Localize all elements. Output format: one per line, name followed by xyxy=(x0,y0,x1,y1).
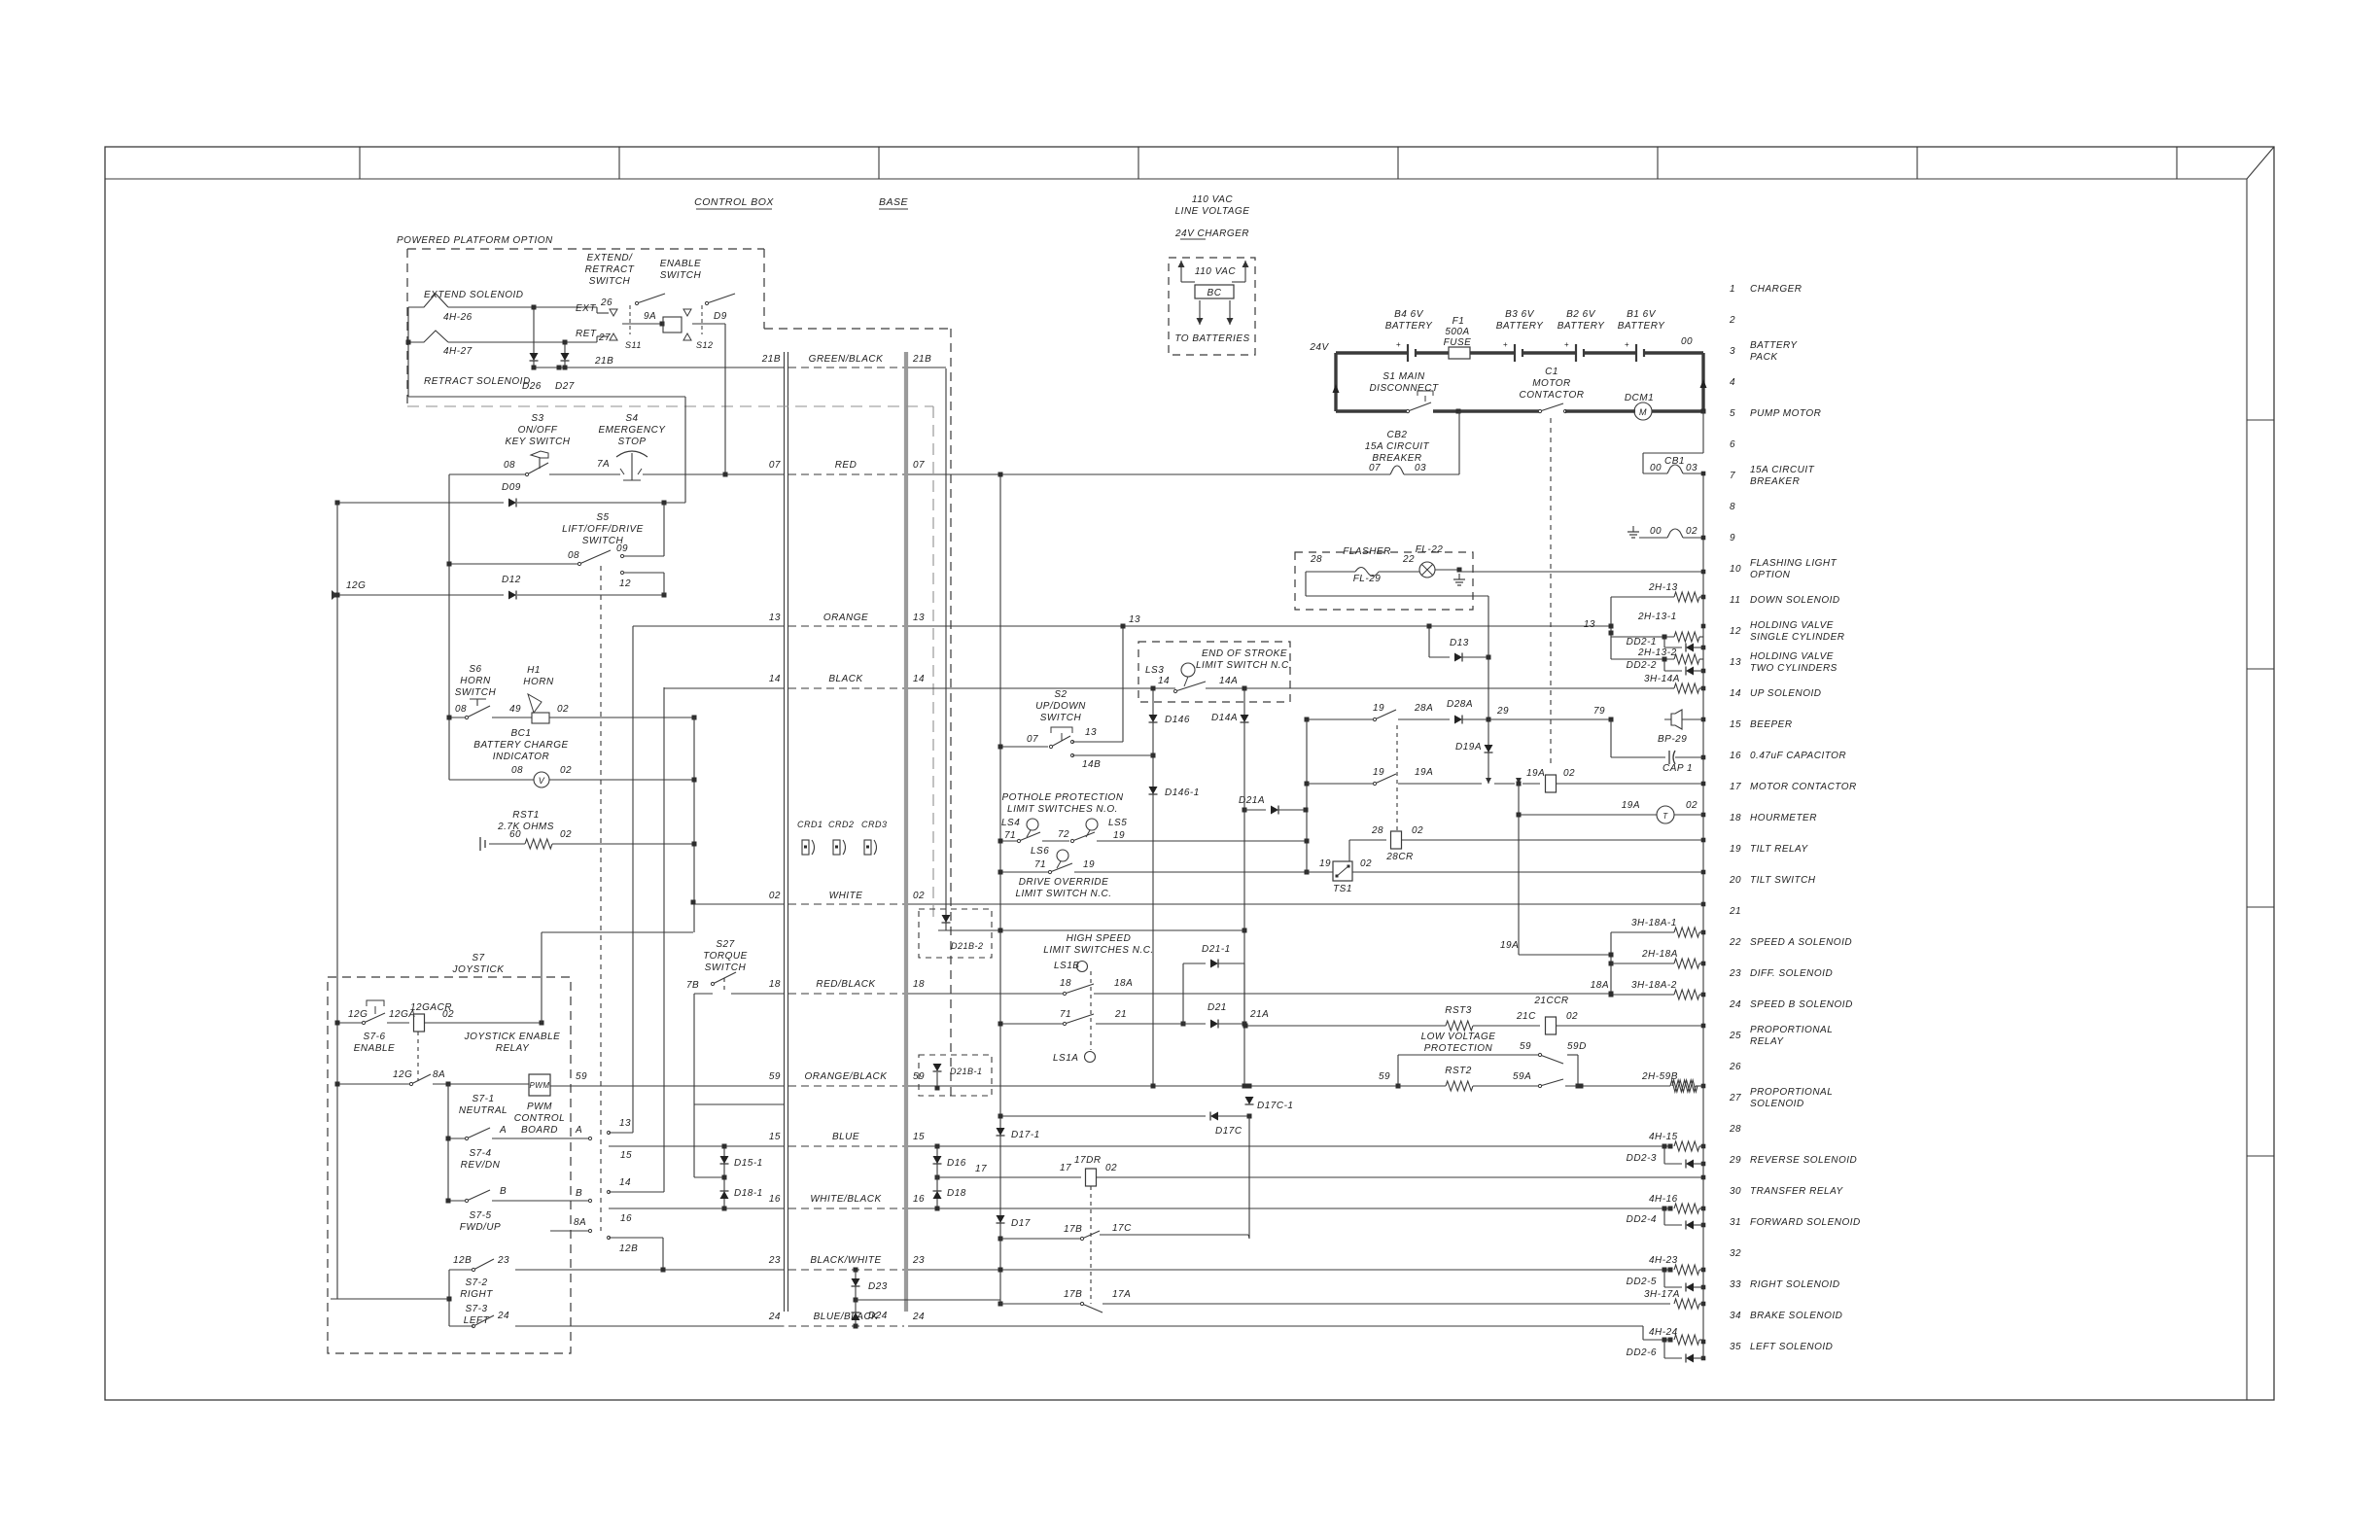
svg-text:17B: 17B xyxy=(1064,1289,1082,1300)
svg-text:19: 19 xyxy=(1730,844,1741,855)
svg-text:21CCR: 21CCR xyxy=(1533,996,1568,1006)
svg-text:12B: 12B xyxy=(619,1243,638,1254)
svg-text:OPTION: OPTION xyxy=(1750,570,1791,580)
svg-text:FLASHING LIGHT: FLASHING LIGHT xyxy=(1750,558,1837,569)
svg-text:M: M xyxy=(1639,407,1647,417)
svg-text:16: 16 xyxy=(1730,751,1741,761)
svg-text:S7-1: S7-1 xyxy=(472,1094,494,1104)
svg-text:LINE VOLTAGE: LINE VOLTAGE xyxy=(1175,206,1250,217)
svg-text:INDICATOR: INDICATOR xyxy=(493,752,550,762)
svg-text:D21-1: D21-1 xyxy=(1202,944,1231,955)
svg-text:DISCONNECT: DISCONNECT xyxy=(1369,383,1439,394)
svg-text:SWITCH: SWITCH xyxy=(1040,713,1082,723)
svg-text:+: + xyxy=(1625,340,1629,349)
svg-text:59: 59 xyxy=(576,1071,587,1082)
svg-text:POTHOLE PROTECTION: POTHOLE PROTECTION xyxy=(1001,792,1123,803)
svg-text:S11: S11 xyxy=(625,340,642,350)
svg-text:79: 79 xyxy=(1593,706,1605,717)
svg-text:D14A: D14A xyxy=(1211,713,1238,723)
svg-text:21: 21 xyxy=(1729,906,1741,917)
svg-text:TS1: TS1 xyxy=(1333,884,1352,894)
svg-text:24V CHARGER: 24V CHARGER xyxy=(1174,228,1249,239)
svg-text:28A: 28A xyxy=(1414,703,1433,714)
svg-text:CAP 1: CAP 1 xyxy=(1662,763,1693,774)
svg-text:CRD3: CRD3 xyxy=(861,820,888,829)
svg-text:LS1A: LS1A xyxy=(1053,1053,1078,1064)
svg-text:02: 02 xyxy=(1686,526,1697,537)
svg-text:D21B-1: D21B-1 xyxy=(950,1067,983,1076)
svg-text:DRIVE OVERRIDE: DRIVE OVERRIDE xyxy=(1019,877,1109,888)
svg-text:23: 23 xyxy=(768,1255,781,1266)
svg-text:ON/OFF: ON/OFF xyxy=(518,425,558,436)
svg-text:LS6: LS6 xyxy=(1031,846,1049,857)
svg-text:2H-59B: 2H-59B xyxy=(1641,1071,1678,1082)
svg-text:RETRACT: RETRACT xyxy=(585,264,635,275)
svg-text:F1: F1 xyxy=(1452,316,1465,327)
svg-text:21B: 21B xyxy=(912,354,931,365)
svg-text:ENABLE: ENABLE xyxy=(354,1043,395,1054)
svg-text:RIGHT: RIGHT xyxy=(460,1289,493,1300)
svg-text:24: 24 xyxy=(768,1312,781,1322)
svg-text:S7-6: S7-6 xyxy=(363,1032,385,1042)
svg-text:02: 02 xyxy=(1563,768,1575,779)
svg-text:FL-29: FL-29 xyxy=(1353,574,1382,584)
svg-text:2H-13: 2H-13 xyxy=(1648,582,1678,593)
svg-text:BEEPER: BEEPER xyxy=(1750,719,1793,730)
svg-text:72: 72 xyxy=(1058,829,1069,840)
svg-text:ORANGE/BLACK: ORANGE/BLACK xyxy=(805,1071,889,1082)
svg-text:LS5: LS5 xyxy=(1108,818,1127,828)
svg-text:T: T xyxy=(1662,812,1668,821)
svg-text:35: 35 xyxy=(1730,1342,1741,1352)
svg-text:S12: S12 xyxy=(696,340,714,350)
svg-text:S3: S3 xyxy=(531,413,543,424)
svg-text:UP/DOWN: UP/DOWN xyxy=(1035,701,1086,712)
svg-text:09: 09 xyxy=(616,543,628,554)
svg-text:+: + xyxy=(1564,340,1569,349)
svg-text:19: 19 xyxy=(1373,703,1384,714)
svg-text:D27: D27 xyxy=(555,381,575,392)
svg-text:S2: S2 xyxy=(1054,689,1067,700)
svg-text:D18-1: D18-1 xyxy=(734,1188,763,1199)
svg-text:8: 8 xyxy=(1730,502,1735,512)
svg-text:3H-14A: 3H-14A xyxy=(1644,674,1680,684)
svg-text:18: 18 xyxy=(1730,813,1741,823)
svg-text:TO BATTERIES: TO BATTERIES xyxy=(1174,333,1249,344)
svg-text:NEUTRAL: NEUTRAL xyxy=(459,1105,507,1116)
svg-text:JOYSTICK: JOYSTICK xyxy=(452,964,506,975)
svg-text:S6: S6 xyxy=(469,664,481,675)
svg-text:31: 31 xyxy=(1730,1217,1741,1228)
svg-text:LIFT/OFF/DRIVE: LIFT/OFF/DRIVE xyxy=(562,524,644,535)
svg-text:BATTERY: BATTERY xyxy=(1496,321,1544,332)
svg-text:SPEED A SOLENOID: SPEED A SOLENOID xyxy=(1750,937,1852,948)
svg-text:EXTEND/: EXTEND/ xyxy=(587,253,634,263)
svg-text:23: 23 xyxy=(912,1255,925,1266)
svg-text:SINGLE CYLINDER: SINGLE CYLINDER xyxy=(1750,632,1845,643)
svg-text:08: 08 xyxy=(511,765,523,776)
svg-text:71: 71 xyxy=(1004,830,1016,841)
svg-text:20: 20 xyxy=(1729,875,1741,886)
svg-text:12G: 12G xyxy=(346,580,366,591)
svg-text:BLACK/WHITE: BLACK/WHITE xyxy=(810,1255,881,1266)
svg-text:S5: S5 xyxy=(596,512,609,523)
svg-text:DD2-3: DD2-3 xyxy=(1627,1153,1657,1164)
svg-text:REV/DN: REV/DN xyxy=(461,1160,501,1171)
svg-text:13: 13 xyxy=(1129,614,1140,625)
svg-text:17B: 17B xyxy=(1064,1224,1082,1235)
svg-text:RST3: RST3 xyxy=(1445,1005,1472,1016)
svg-text:4H-16: 4H-16 xyxy=(1649,1194,1678,1205)
svg-text:EXTEND SOLENOID: EXTEND SOLENOID xyxy=(424,290,524,300)
svg-text:12GACR: 12GACR xyxy=(410,1002,452,1013)
svg-text:MOTOR: MOTOR xyxy=(1532,378,1571,389)
svg-text:D16: D16 xyxy=(947,1158,966,1169)
svg-text:27: 27 xyxy=(598,332,611,343)
svg-text:FWD/UP: FWD/UP xyxy=(460,1222,501,1233)
svg-text:17: 17 xyxy=(975,1164,987,1174)
svg-text:LOW VOLTAGE: LOW VOLTAGE xyxy=(1421,1032,1496,1042)
svg-text:BATTERY: BATTERY xyxy=(1557,321,1605,332)
svg-text:18: 18 xyxy=(1060,978,1071,989)
svg-text:D24: D24 xyxy=(868,1311,888,1321)
svg-text:15: 15 xyxy=(620,1150,632,1161)
svg-text:TILT RELAY: TILT RELAY xyxy=(1750,844,1808,855)
svg-text:DD2-2: DD2-2 xyxy=(1627,660,1657,671)
svg-text:LIMIT SWITCH N.C.: LIMIT SWITCH N.C. xyxy=(1196,660,1292,671)
svg-text:D21B-2: D21B-2 xyxy=(951,941,984,951)
svg-text:S4: S4 xyxy=(625,413,638,424)
svg-text:03: 03 xyxy=(1415,463,1426,473)
svg-text:18A: 18A xyxy=(1114,978,1133,989)
svg-text:1: 1 xyxy=(1730,284,1735,295)
svg-text:12B: 12B xyxy=(453,1255,472,1266)
svg-text:D12: D12 xyxy=(502,575,521,585)
svg-text:12: 12 xyxy=(1730,626,1741,637)
svg-text:B4 6V: B4 6V xyxy=(1394,309,1424,320)
svg-text:KEY SWITCH: KEY SWITCH xyxy=(505,437,570,447)
svg-text:13: 13 xyxy=(1584,619,1595,630)
svg-text:CB1: CB1 xyxy=(1664,456,1685,467)
svg-text:29: 29 xyxy=(1496,706,1509,717)
svg-text:24: 24 xyxy=(1729,999,1741,1010)
svg-text:RETRACT SOLENOID: RETRACT SOLENOID xyxy=(424,376,531,387)
svg-text:D146: D146 xyxy=(1165,715,1190,725)
svg-text:DCM1: DCM1 xyxy=(1625,393,1654,403)
svg-text:07: 07 xyxy=(769,460,781,471)
svg-text:S7-2: S7-2 xyxy=(465,1277,487,1288)
svg-text:BC1: BC1 xyxy=(511,728,532,739)
svg-text:BC: BC xyxy=(1207,288,1222,298)
svg-text:BP-29: BP-29 xyxy=(1658,734,1687,745)
svg-text:ENABLE: ENABLE xyxy=(660,259,701,269)
svg-text:02: 02 xyxy=(913,891,925,901)
svg-text:LIMIT SWITCH N.C.: LIMIT SWITCH N.C. xyxy=(1015,889,1111,899)
svg-text:PROPORTIONAL: PROPORTIONAL xyxy=(1750,1087,1833,1098)
svg-text:JOYSTICK ENABLE: JOYSTICK ENABLE xyxy=(464,1032,561,1042)
svg-text:19A: 19A xyxy=(1415,767,1433,778)
svg-text:00: 00 xyxy=(1681,336,1693,347)
svg-text:5: 5 xyxy=(1730,408,1735,419)
svg-text:23: 23 xyxy=(1729,968,1741,979)
svg-text:D28A: D28A xyxy=(1447,699,1473,710)
svg-text:23: 23 xyxy=(497,1255,509,1266)
svg-text:08: 08 xyxy=(568,550,579,561)
svg-text:19A: 19A xyxy=(1500,940,1519,951)
svg-text:24V: 24V xyxy=(1309,342,1329,353)
svg-text:S7-3: S7-3 xyxy=(465,1304,487,1314)
svg-text:07: 07 xyxy=(1027,734,1038,745)
svg-text:BRAKE SOLENOID: BRAKE SOLENOID xyxy=(1750,1311,1842,1321)
svg-text:PROTECTION: PROTECTION xyxy=(1424,1043,1493,1054)
svg-text:CONTROL: CONTROL xyxy=(514,1113,565,1124)
svg-text:BASE: BASE xyxy=(879,196,909,208)
svg-text:3H-18A-2: 3H-18A-2 xyxy=(1631,980,1677,991)
svg-text:B: B xyxy=(500,1186,507,1197)
svg-text:3H-18A-1: 3H-18A-1 xyxy=(1631,918,1677,928)
svg-text:59: 59 xyxy=(769,1071,781,1082)
svg-text:15A CIRCUIT: 15A CIRCUIT xyxy=(1750,465,1815,475)
svg-text:19: 19 xyxy=(1373,767,1384,778)
svg-text:0.47uF CAPACITOR: 0.47uF CAPACITOR xyxy=(1750,751,1846,761)
svg-text:CONTROL BOX: CONTROL BOX xyxy=(694,196,774,208)
svg-text:RED: RED xyxy=(835,460,857,471)
svg-text:D18: D18 xyxy=(947,1188,966,1199)
svg-text:00: 00 xyxy=(1650,526,1662,537)
svg-text:BREAKER: BREAKER xyxy=(1750,476,1800,487)
svg-text:11: 11 xyxy=(1730,595,1740,606)
svg-text:S1 MAIN: S1 MAIN xyxy=(1382,371,1425,382)
svg-text:59: 59 xyxy=(1520,1041,1531,1052)
svg-text:CRD1: CRD1 xyxy=(797,820,823,829)
svg-text:SWITCH: SWITCH xyxy=(589,276,631,287)
svg-text:DIFF. SOLENOID: DIFF. SOLENOID xyxy=(1750,968,1833,979)
svg-text:33: 33 xyxy=(1730,1279,1741,1290)
svg-text:13: 13 xyxy=(1730,657,1741,668)
svg-text:D26: D26 xyxy=(522,381,542,392)
svg-text:B3 6V: B3 6V xyxy=(1505,309,1535,320)
svg-text:4H-26: 4H-26 xyxy=(443,312,472,323)
svg-text:RST1: RST1 xyxy=(512,810,540,821)
svg-text:HIGH SPEED: HIGH SPEED xyxy=(1067,933,1132,944)
svg-text:D17-1: D17-1 xyxy=(1011,1130,1040,1140)
svg-text:500A: 500A xyxy=(1445,327,1469,337)
svg-text:21B: 21B xyxy=(761,354,781,365)
svg-text:D146-1: D146-1 xyxy=(1165,787,1200,798)
svg-text:HOLDING VALVE: HOLDING VALVE xyxy=(1750,620,1834,631)
svg-text:RIGHT SOLENOID: RIGHT SOLENOID xyxy=(1750,1279,1840,1290)
svg-text:EXT: EXT xyxy=(576,303,596,314)
svg-text:2H-13-1: 2H-13-1 xyxy=(1637,612,1677,622)
svg-text:02: 02 xyxy=(1360,858,1372,869)
svg-text:110 VAC: 110 VAC xyxy=(1192,194,1234,205)
svg-text:BATTERY CHARGE: BATTERY CHARGE xyxy=(473,740,568,751)
svg-text:24: 24 xyxy=(912,1312,925,1322)
svg-text:HOURMETER: HOURMETER xyxy=(1750,813,1817,823)
svg-text:CONTACTOR: CONTACTOR xyxy=(1520,390,1585,401)
svg-text:28: 28 xyxy=(1371,825,1383,836)
svg-text:02: 02 xyxy=(1412,825,1423,836)
svg-text:PUMP MOTOR: PUMP MOTOR xyxy=(1750,408,1821,419)
svg-text:CRD2: CRD2 xyxy=(828,820,855,829)
svg-text:8A: 8A xyxy=(433,1069,445,1080)
svg-text:SPEED B SOLENOID: SPEED B SOLENOID xyxy=(1750,999,1853,1010)
svg-text:BLUE: BLUE xyxy=(832,1132,859,1142)
svg-text:4H-15: 4H-15 xyxy=(1649,1132,1678,1142)
svg-text:22: 22 xyxy=(1729,937,1741,948)
svg-text:LEFT SOLENOID: LEFT SOLENOID xyxy=(1750,1342,1833,1352)
svg-text:BATTERY: BATTERY xyxy=(1618,321,1665,332)
svg-text:V: V xyxy=(539,776,545,786)
svg-text:S7-5: S7-5 xyxy=(469,1210,491,1221)
svg-text:HOLDING VALVE: HOLDING VALVE xyxy=(1750,651,1834,662)
svg-text:DD2-1: DD2-1 xyxy=(1627,637,1657,647)
svg-text:A: A xyxy=(499,1125,507,1136)
svg-text:2H-13-2: 2H-13-2 xyxy=(1637,647,1677,658)
svg-text:ORANGE: ORANGE xyxy=(823,612,868,623)
svg-text:12G: 12G xyxy=(393,1069,412,1080)
svg-text:14: 14 xyxy=(1730,688,1741,699)
svg-text:D21: D21 xyxy=(1207,1002,1227,1013)
svg-text:D17: D17 xyxy=(1011,1218,1031,1229)
svg-text:13: 13 xyxy=(913,612,925,623)
svg-text:2H-18A: 2H-18A xyxy=(1641,949,1678,960)
svg-text:13: 13 xyxy=(619,1118,631,1129)
svg-text:7A: 7A xyxy=(597,459,610,470)
svg-text:TILT SWITCH: TILT SWITCH xyxy=(1750,875,1816,886)
svg-text:07: 07 xyxy=(1369,463,1381,473)
svg-text:3: 3 xyxy=(1730,346,1735,357)
svg-text:19A: 19A xyxy=(1526,768,1545,779)
svg-text:4H-24: 4H-24 xyxy=(1649,1327,1678,1338)
svg-text:RET: RET xyxy=(576,329,597,339)
svg-text:13: 13 xyxy=(1085,727,1097,738)
svg-text:LIMIT SWITCHES N.O.: LIMIT SWITCHES N.O. xyxy=(1007,804,1118,815)
svg-text:17DR: 17DR xyxy=(1074,1155,1102,1166)
svg-text:9A: 9A xyxy=(644,311,656,322)
svg-text:STOP: STOP xyxy=(617,437,646,447)
svg-text:21: 21 xyxy=(1114,1009,1127,1020)
svg-text:CHARGER: CHARGER xyxy=(1750,284,1802,295)
svg-text:14: 14 xyxy=(1158,676,1170,686)
svg-text:POWERED PLATFORM OPTION: POWERED PLATFORM OPTION xyxy=(397,235,553,246)
svg-text:19A: 19A xyxy=(1622,800,1640,811)
svg-text:08: 08 xyxy=(455,704,467,715)
svg-text:14B: 14B xyxy=(1082,759,1101,770)
svg-text:17: 17 xyxy=(1730,782,1741,792)
svg-text:S7-4: S7-4 xyxy=(469,1148,491,1159)
svg-text:59A: 59A xyxy=(1513,1071,1531,1082)
svg-text:FLASHER: FLASHER xyxy=(1343,546,1391,557)
svg-text:28: 28 xyxy=(1310,554,1322,565)
svg-text:28: 28 xyxy=(1729,1124,1741,1135)
svg-text:BATTERY: BATTERY xyxy=(1385,321,1433,332)
svg-text:RELAY: RELAY xyxy=(496,1043,530,1054)
svg-text:14: 14 xyxy=(913,674,925,684)
svg-text:7: 7 xyxy=(1730,471,1735,481)
svg-text:59D: 59D xyxy=(1567,1041,1587,1052)
svg-text:B2 6V: B2 6V xyxy=(1566,309,1596,320)
svg-text:DD2-6: DD2-6 xyxy=(1627,1347,1657,1358)
svg-text:13: 13 xyxy=(769,612,781,623)
svg-text:DOWN SOLENOID: DOWN SOLENOID xyxy=(1750,595,1840,606)
svg-text:S7: S7 xyxy=(472,953,484,963)
svg-text:RELAY: RELAY xyxy=(1750,1036,1784,1047)
svg-text:17: 17 xyxy=(1060,1163,1071,1173)
svg-text:S27: S27 xyxy=(716,939,734,950)
svg-text:BATTERY: BATTERY xyxy=(1750,340,1798,351)
svg-text:4: 4 xyxy=(1730,377,1735,388)
svg-text:07: 07 xyxy=(913,460,925,471)
svg-text:19: 19 xyxy=(1083,859,1095,870)
svg-text:3H-17A: 3H-17A xyxy=(1644,1289,1680,1300)
svg-text:30: 30 xyxy=(1730,1186,1741,1197)
svg-text:B: B xyxy=(576,1188,582,1199)
svg-text:19: 19 xyxy=(1319,858,1331,869)
svg-text:SWITCH: SWITCH xyxy=(660,270,702,281)
svg-text:00: 00 xyxy=(1650,463,1662,473)
svg-text:18A: 18A xyxy=(1591,980,1609,991)
svg-text:71: 71 xyxy=(1060,1009,1071,1020)
svg-text:TORQUE: TORQUE xyxy=(703,951,748,962)
svg-text:BOARD: BOARD xyxy=(521,1125,558,1136)
svg-text:2: 2 xyxy=(1729,315,1735,326)
svg-text:4H-23: 4H-23 xyxy=(1649,1255,1678,1266)
svg-text:TWO CYLINDERS: TWO CYLINDERS xyxy=(1750,663,1837,674)
svg-text:02: 02 xyxy=(1105,1163,1117,1173)
svg-text:26: 26 xyxy=(1729,1062,1741,1072)
svg-text:110 VAC: 110 VAC xyxy=(1195,266,1237,277)
svg-text:25: 25 xyxy=(1729,1031,1741,1041)
svg-text:16: 16 xyxy=(620,1213,632,1224)
svg-text:DD2-4: DD2-4 xyxy=(1627,1214,1657,1225)
svg-text:D17C: D17C xyxy=(1215,1126,1242,1137)
svg-text:SOLENOID: SOLENOID xyxy=(1750,1099,1804,1109)
svg-text:A: A xyxy=(575,1125,582,1136)
svg-text:02: 02 xyxy=(1686,800,1697,811)
svg-text:2.7K OHMS: 2.7K OHMS xyxy=(497,822,554,832)
svg-text:15: 15 xyxy=(1730,719,1741,730)
svg-text:C1: C1 xyxy=(1545,367,1558,377)
svg-text:WHITE/BLACK: WHITE/BLACK xyxy=(810,1194,882,1205)
svg-text:D13: D13 xyxy=(1450,638,1469,648)
svg-text:D21A: D21A xyxy=(1239,795,1265,806)
svg-text:02: 02 xyxy=(560,829,572,840)
svg-text:LS3: LS3 xyxy=(1145,665,1164,676)
svg-text:CB2: CB2 xyxy=(1387,430,1408,440)
svg-text:PWM: PWM xyxy=(527,1102,552,1112)
svg-text:18: 18 xyxy=(913,979,925,990)
svg-text:LS1B: LS1B xyxy=(1054,961,1079,971)
svg-text:D09: D09 xyxy=(502,482,521,493)
svg-text:RST2: RST2 xyxy=(1445,1066,1472,1076)
svg-text:16: 16 xyxy=(913,1194,925,1205)
svg-text:21B: 21B xyxy=(594,356,613,367)
svg-text:LS4: LS4 xyxy=(1001,818,1020,828)
svg-text:02: 02 xyxy=(560,765,572,776)
svg-text:HORN: HORN xyxy=(460,676,491,686)
svg-text:HORN: HORN xyxy=(523,677,554,687)
svg-text:16: 16 xyxy=(769,1194,781,1205)
svg-text:17A: 17A xyxy=(1112,1289,1131,1300)
svg-text:H1: H1 xyxy=(527,665,541,676)
svg-text:WHITE: WHITE xyxy=(829,891,863,901)
svg-text:14: 14 xyxy=(769,674,781,684)
svg-text:END OF STROKE: END OF STROKE xyxy=(1202,648,1287,659)
svg-text:10: 10 xyxy=(1730,564,1741,575)
svg-text:RED/BLACK: RED/BLACK xyxy=(816,979,876,990)
svg-text:D15-1: D15-1 xyxy=(734,1158,763,1169)
